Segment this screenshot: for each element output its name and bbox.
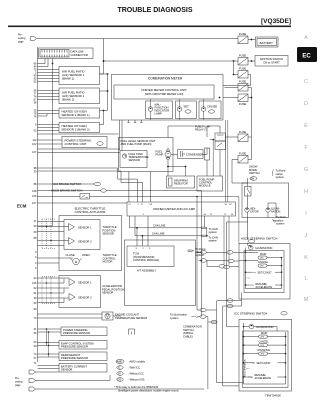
snow indicator lamp [245,208,259,214]
svg-text:27: 27 [141,204,144,206]
wire: A/F B2 supply [100,74,108,91]
CRUISE indicator lamp [199,99,221,120]
svg-text:L: L [304,276,307,282]
wire: K-line to bus pin [38,225,53,227]
svg-text:system: system [209,230,218,234]
svg-text:SENSOR 2 (BANK 2): SENSOR 2 (BANK 2) [62,128,90,132]
heated oxygen sensor 2 bank 2 [59,123,100,133]
svg-text:112: 112 [32,138,37,142]
snow mode switch box [242,183,289,218]
svg-text:68: 68 [34,236,37,240]
To illumination system (A/T) [188,247,206,257]
svg-text:107: 107 [32,201,37,205]
svg-text:3: 3 [35,250,37,254]
ignition switch box [255,56,288,67]
wires to EVAP sensor [38,343,60,346]
APP sensor 1 [69,279,92,286]
ICC set/coast switch [250,362,271,365]
SET indicator lamp [176,99,197,120]
wire: fuse6 output [248,136,252,138]
wires to refrigerant sensor [38,354,60,357]
wire: relay branch to fuel pump control module [210,140,215,176]
svg-text:DATA LINK: DATA LINK [71,50,85,54]
svg-text:(BANK 2): (BANK 2) [62,98,74,102]
fuse 3 [238,67,248,78]
svg-text:62: 62 [34,129,37,133]
unified meter control unit [114,85,214,99]
ASCD illumination lamp [249,245,273,250]
svg-text:CAN LINE: CAN LINE [152,232,165,236]
ASCD main switch [258,253,267,260]
svg-text:53: 53 [229,204,232,206]
wires: DLC drops to ECM bus [38,59,46,64]
wire ECT to illumination riser [113,315,121,317]
A/T assembly box [125,240,196,306]
to illumination system (snow switch top) [273,169,287,180]
wires to PSP sensor [38,329,62,332]
svg-text:: Without IVIS: : Without IVIS [128,378,145,382]
ICC illumination lamp [249,324,273,329]
svg-text:UNIFIED METER AND A/C AMP: UNIFIED METER AND A/C AMP [153,207,195,211]
wire: ECM row to fuel box [38,133,119,135]
svg-text:7: 7 [138,204,140,206]
svg-text:3: 3 [136,248,138,250]
riser to inner box bottom [217,301,244,383]
svg-text:system: system [170,316,179,320]
dropping resistor [167,176,195,188]
wire: snow switch output into ASCD [247,218,249,240]
TPS sensor 1 [69,224,93,231]
APP sensor 2 [69,294,92,301]
svg-text:91: 91 [34,291,37,295]
combination switch (spiral cable) label [183,325,202,339]
svg-text:39: 39 [34,170,37,174]
svg-text:ILLUMINATION: ILLUMINATION [255,247,273,250]
svg-text:MODULE: MODULE [199,184,211,188]
svg-text:FUSE: FUSE [239,67,246,71]
svg-text:I: I [305,211,307,217]
svg-text:SET/COAST: SET/COAST [258,271,273,274]
svg-text:FUSE: FUSE [239,102,246,106]
svg-text:OS: OS [118,379,122,382]
ECM main bus (vertical) [37,47,39,362]
svg-text:2W: 2W [251,178,255,181]
svg-text:ECM: ECM [17,204,27,209]
engine coolant temperature sensor [102,312,147,320]
svg-text:41: 41 [34,327,37,331]
svg-text:CONNECTOR: CONNECTOR [71,53,88,57]
svg-text:56: 56 [34,331,37,335]
svg-text:K: K [304,255,308,261]
svg-text:62: 62 [34,286,37,290]
fuel pump relay [195,125,226,150]
svg-text:TEMPERATURE SENSOR: TEMPERATURE SENSOR [115,316,147,320]
svg-text:: Without ICC: : Without ICC [128,372,144,376]
svg-text:CRUISE: CRUISE [207,105,217,109]
wires to battery current sensor [38,366,60,369]
wires into ASCD box [197,252,239,261]
accelerator pedal position sensor box [59,276,101,308]
malfunction indicator lamp [146,99,173,120]
svg-text:SENSOR: SENSOR [129,158,140,162]
svg-text:BATTERY: BATTERY [260,41,273,45]
svg-text:106: 106 [32,281,37,285]
wire: brake switch feed [38,196,198,198]
ECM pin wires group 3 (HO2S bank1) [38,111,60,114]
fuel level sensor unit and fuel pump (main) [119,138,174,172]
wire: fuse7 output down to snow mode switch [232,160,238,184]
electric throttle control actuator box [59,216,122,271]
wires: meter to fuel level sender [120,120,123,151]
fuse 6 [238,130,248,141]
svg-text:E: E [304,123,308,129]
legend: without IVIS [117,378,145,382]
fuse 5 [238,94,248,106]
wire HO2S1 ground branch [38,114,48,117]
svg-text:M: M [75,260,78,264]
snow mode switch label [249,165,260,181]
wire: drop to meter feed [103,39,105,62]
svg-text:COMBINATION METER: COMBINATION METER [148,77,183,81]
battery current sensor [59,364,107,373]
side tab EC (current section) [297,47,317,62]
TPS sensor 2 [69,238,93,245]
ICC distance switch [258,349,271,356]
svg-text:4: 4 [35,266,37,270]
ECM pin wires group 2 (A/F sensor bank2) [38,91,60,100]
wires from bottom preceding page arrows [36,372,205,389]
right feed rail [233,60,235,62]
svg-text:IC: IC [118,367,121,370]
svg-text:ON or START: ON or START [263,61,280,65]
wire: meter to fuse4 [225,87,239,89]
svg-text:system: system [209,239,218,243]
svg-text:TBWT0491E: TBWT0491E [265,394,281,398]
svg-text:F: F [304,145,308,151]
svg-text:(WITH ODO/TRIP METER LCD): (WITH ODO/TRIP METER LCD) [145,92,184,96]
svg-text:DISTANCE: DISTANCE [258,349,271,352]
svg-text:ICC BRAKE SWITCH: ICC BRAKE SWITCH [53,182,81,186]
meter ground pins [127,120,142,123]
wires: fuel level sender to unified meter amp [129,172,150,203]
CAN line L [135,216,208,237]
svg-text:(Intelligent power distributio: (Intelligent power distribution module e… [118,389,179,393]
air fuel ratio sensor 1 bank 1 [59,67,100,85]
ASCD inner box [244,251,284,293]
wire: brake switch row to ASCD box top [197,196,239,198]
svg-text:86: 86 [34,182,37,186]
svg-text:21: 21 [129,204,132,206]
svg-text:CAN LINE: CAN LINE [153,224,166,228]
evap control system pressure sensor [59,341,107,350]
junction dot [103,60,105,62]
svg-text:14: 14 [231,214,234,216]
fuse4/5 output rail [248,87,252,89]
riser to outer box bottom [223,306,239,386]
svg-text:74: 74 [34,352,37,356]
fuse 1 [238,32,248,43]
svg-text:2: 2 [143,248,145,250]
power steering control unit [62,137,107,148]
svg-text:SENSOR 2: SENSOR 2 [78,295,92,299]
ECM wires to throttle motor [38,258,73,263]
snow illumination lamp [266,208,281,214]
svg-text:2: 2 [143,214,145,216]
svg-text:A: A [304,35,308,41]
wire: K-line long vertical [52,64,54,227]
resistor component right of condenser [205,148,210,160]
svg-text:CATOR: CATOR [250,211,259,214]
wire: HO2S supplies joining riser [100,91,108,111]
legend: with ICC [117,366,141,370]
switch symbol inside [245,187,252,197]
wires: ECM to fuel tank temperature sensor [38,149,121,153]
svg-text:NATION: NATION [271,211,280,214]
ECM pin wires to TPS (with shield dashes) [38,222,69,246]
svg-text:70: 70 [34,316,37,320]
wire: fuse7 drop from rail [248,142,252,160]
wire: pin 107 row [38,202,128,204]
svg-text:74: 74 [34,115,37,119]
TCM (transmission control module) [127,246,174,267]
fuel pump control module [197,176,223,191]
heated oxygen sensor 2 bank 1 [59,108,100,118]
combination meter outer box [112,75,224,121]
svg-text:52: 52 [34,80,37,84]
svg-text:CLOSE: CLOSE [66,253,75,257]
fuse 2 [238,54,248,65]
svg-text:9: 9 [149,248,151,250]
svg-text:69: 69 [34,230,37,234]
svg-text:39: 39 [34,296,37,300]
to illumination system (below snow box) [273,215,287,226]
svg-text:SENSOR 1: SENSOR 1 [78,225,92,229]
svg-text:SENSOR: SENSOR [103,232,114,236]
connector ovals row (ASCD inputs) [201,251,207,255]
svg-text:RELAY (*): RELAY (*) [195,128,207,132]
svg-text:94: 94 [34,276,37,280]
svg-text:system: system [276,175,285,179]
svg-text:OPEN: OPEN [82,253,90,257]
svg-text:LAMP: LAMP [155,112,163,116]
stop lamp switch symbol [80,194,90,200]
wires inside fuel area [167,148,169,151]
svg-text:99: 99 [34,307,37,311]
fuel pump motor [156,150,172,160]
wires: ICC / ASCD brake switch rows [38,184,202,191]
svg-text:PUMP: PUMP [156,153,164,157]
ECM pin wires to APP sensor [38,278,70,303]
throttle control motor [66,253,90,265]
ECM pin numbers column [32,62,37,366]
junction dot DLC K-line [52,63,54,65]
svg-text:CANCEL: CANCEL [258,261,269,264]
wire: relay to fuse6 [226,136,239,138]
svg-text:PRESSURE SENSOR: PRESSURE SENSOR [61,356,88,360]
svg-text:4: 4 [35,255,37,259]
to illumination system (near ECT) [170,313,198,320]
bracket symbol right of PSP [129,329,135,335]
power steering pressure sensor [61,327,107,336]
wire: preceding page to fuse 1 [37,38,238,40]
svg-text:98: 98 [34,166,37,170]
riser: meter to unified amp pin 54 [224,120,226,202]
svg-text:71: 71 [224,214,227,216]
snow switch internal wires [248,183,276,218]
svg-text:66: 66 [204,214,207,216]
condenser [178,150,204,159]
throttle position sensor inner box [64,220,100,250]
svg-text:A/T ASSEMBLY: A/T ASSEMBLY [137,269,156,273]
svg-text:SET/COAST: SET/COAST [257,362,272,365]
svg-text:CONDENSER: CONDENSER [186,152,203,156]
svg-text:FUSE: FUSE [239,32,246,36]
ECM pin wires group 1 (A/F sensor bank1) [38,70,60,82]
svg-text:PRESSURE SENSOR: PRESSURE SENSOR [61,345,88,349]
ICC resume/accelerate switch [248,374,271,380]
svg-text:FUSE: FUSE [239,152,246,156]
svg-text:: AWD models: : AWD models [128,360,146,364]
svg-text:ICC STEERING SWITCH: ICC STEERING SWITCH [234,312,267,316]
svg-text:67: 67 [34,356,37,360]
svg-text:OI: OI [118,373,121,376]
svg-text:38: 38 [34,101,37,105]
wire: fuse2 to ignition switch [248,60,255,62]
svg-text:6: 6 [35,123,37,127]
svg-text:H: H [304,189,308,195]
fuse 4 [238,80,248,91]
fuse 7 [238,152,248,163]
svg-text:SENSOR: SENSOR [61,368,72,372]
svg-text:SENSOR: SENSOR [102,291,113,295]
To CAN system arrows [202,227,218,243]
svg-text:99: 99 [34,344,37,348]
preceding page connector (bottom) [15,370,36,391]
air fuel ratio sensor 1 bank 2 [59,88,100,104]
CAN line H [130,216,207,229]
ICC main switch [259,332,268,339]
svg-text:SENSOR 2 (BANK 1): SENSOR 2 (BANK 1) [62,113,90,117]
unified meter and A/C amp [127,202,236,216]
svg-text:71: 71 [34,361,37,365]
wires CAN to TCM [136,228,138,246]
header rule [8,26,291,28]
ICC N-mark [246,368,250,370]
svg-text:SET: SET [184,105,190,109]
svg-text:[VQ35DE]: [VQ35DE] [261,18,291,25]
svg-text:107: 107 [32,150,37,154]
svg-text:CONTROL MODULE): CONTROL MODULE) [133,258,159,262]
ASCD internal rails [246,248,282,289]
svg-text:ACCELERATE: ACCELERATE [255,377,272,380]
svg-text:D: D [304,101,308,107]
refrigerant pressure sensor [59,352,107,361]
svg-text:3: 3 [35,261,37,265]
svg-text:102: 102 [32,142,37,146]
svg-text:63: 63 [34,340,37,344]
fuel tank temperature sensor (inner) [120,151,149,168]
svg-text:106: 106 [32,194,37,198]
svg-text:MAIN: MAIN [260,253,266,256]
ASCD cancel switch [258,261,269,268]
svg-text:G: G [304,167,308,173]
wires out of ASCD box bottom [217,289,246,306]
wires to ECT sensor [38,314,103,318]
svg-text:SWITCH: SWITCH [249,171,260,175]
ECM pin wires power steering unit [38,140,63,144]
svg-text:J: J [305,233,308,239]
svg-text:ASCD BRAKE SWITCH: ASCD BRAKE SWITCH [51,189,82,193]
fuse3 wires [234,74,239,76]
svg-text:* This relay is built into th: * This relay is built into the IPDM E/R [114,385,158,389]
riser: meter to unified amp pin 53 [227,120,229,202]
snow output riser to illumination lamp [227,222,240,327]
svg-text:: With ICC: : With ICC [128,366,140,370]
svg-text:58: 58 [150,204,153,206]
ICC cancel switch [259,340,270,347]
wire: preceding page riser up [207,317,209,389]
svg-text:EC: EC [302,54,311,60]
wires: meter feeds from fuses 1-2 [223,85,251,87]
svg-text:IGNITION SWITCH: IGNITION SWITCH [260,57,283,61]
svg-text:108: 108 [32,189,37,193]
svg-text:FUSE: FUSE [239,54,246,58]
svg-text:72: 72 [210,214,213,216]
svg-text:page: page [15,384,21,387]
legend: AWD [116,360,146,364]
svg-text:(BANK 1): (BANK 1) [62,77,74,81]
wires: ECM to unified meter and A/C amp (jogged) [38,168,138,202]
wires: brake switch risers into ICC [197,309,200,311]
preceding page connector arrow (top) [31,37,37,41]
svg-text:CABLE): CABLE) [183,334,193,338]
svg-text:UNIFIED METER CONTROL UNIT: UNIFIED METER CONTROL UNIT [141,88,187,92]
legend: without ICC [117,372,144,376]
svg-text:63: 63 [34,301,37,305]
wires: snow switch feed into box [232,182,248,184]
sensor supply junction risers [47,329,49,357]
svg-text:system: system [276,222,285,226]
svg-text:CONTROL ACTUATOR: CONTROL ACTUATOR [75,210,106,214]
svg-text:TROUBLE DIAGNOSIS: TROUBLE DIAGNOSIS [117,7,192,14]
svg-text:AWD: AWD [117,361,123,364]
ICC steering switch outer box [239,319,292,391]
svg-text:AND FUEL PUMP (MAIN): AND FUEL PUMP (MAIN) [121,142,152,146]
wire: A/F B1 supply up to battery feed [100,61,104,74]
svg-text:54: 54 [225,204,228,206]
svg-text:M: M [304,297,309,303]
ASCD steering switch box [239,244,290,300]
svg-text:SENSOR 1: SENSOR 1 [78,280,92,284]
svg-text:FUSE: FUSE [239,80,246,84]
ECM pin wires group 4 (HO2S bank2) [38,125,60,131]
snow switch output riser [227,218,248,223]
svg-text:page: page [18,41,24,44]
long risers from meter area down right side [197,120,239,244]
ASCD N-mark [247,277,251,279]
svg-text:47: 47 [34,219,37,223]
svg-text:50: 50 [34,224,37,228]
svg-text:MOTOR: MOTOR [103,260,113,264]
data link connector assembly [39,48,94,59]
wire: fuse7 to snow switch [247,178,249,183]
svg-text:CONTROL UNIT: CONTROL UNIT [65,142,87,146]
ASCD set/coast switch [252,271,273,274]
svg-text:MAIN: MAIN [261,332,267,335]
svg-text:C: C [304,79,308,85]
svg-text:PRESSURE SENSOR: PRESSURE SENSOR [63,331,90,335]
battery box [256,37,279,47]
